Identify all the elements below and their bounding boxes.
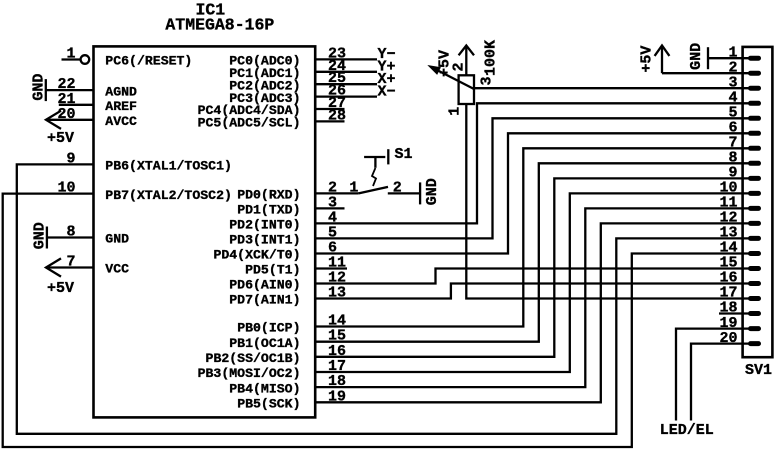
wire PB4 to SV1 pin 11 (315, 208, 749, 387)
svg-text:GND: GND (105, 232, 129, 247)
connector SV1 pin 18 stub (719, 312, 749, 314)
svg-text:GND: GND (31, 222, 48, 249)
svg-text:SV1: SV1 (745, 362, 772, 379)
connector SV1 pin 18 pad and number (719, 300, 758, 317)
svg-text:GND: GND (424, 178, 441, 205)
svg-text:PD4(XCK/T0): PD4(XCK/T0) (213, 248, 300, 263)
connector SV1 pin 10 pad and number (719, 180, 758, 197)
ground symbol at AGND (30, 74, 47, 102)
wire stub PD1 (pin 3) (315, 207, 344, 209)
wire PD0 to switch S1 (315, 192, 358, 194)
IC1 pin 11 PD5(T1) (245, 255, 346, 278)
svg-text:PB7(XTAL2/TOSC2): PB7(XTAL2/TOSC2) (105, 188, 232, 203)
IC U1 IC1 body (94, 46, 316, 417)
IC1 pin 25 PC2(ADC2) (229, 70, 377, 93)
wire stub PD5 (pin 11) (315, 267, 347, 269)
svg-text:PB4(MISO): PB4(MISO) (229, 381, 300, 396)
IC1 pin 24 PC1(ADC1) (229, 58, 377, 81)
wire PB6 (pin 9) long route to SV1 pin 13 (17, 164, 749, 433)
wire PD4 to SV1 pin 6 (315, 133, 749, 253)
IC1 pin 23 PC0(ADC0) (229, 45, 377, 68)
svg-text:PD0(RXD): PD0(RXD) (237, 188, 300, 203)
connector SV1 pin 16 pad and number (719, 270, 758, 287)
svg-text:X−: X− (378, 83, 396, 100)
wire PB3 to SV1 pin 10 (315, 193, 749, 372)
svg-text:PB6(XTAL1/TOSC1): PB6(XTAL1/TOSC1) (105, 159, 232, 174)
svg-text:PD5(T1): PD5(T1) (245, 263, 300, 278)
IC1 pin 4 PD2(INT0) (229, 209, 337, 232)
svg-text:PB5(SCK): PB5(SCK) (237, 397, 300, 412)
wire potentiometer pin 1 to SV1 pin 17 (466, 104, 749, 299)
IC1 pin 10 PB7(XTAL2/TOSC2) (57, 180, 231, 203)
IC1 pin 22 AGND (46, 76, 137, 99)
svg-text:GND: GND (688, 43, 705, 70)
svg-text:28: 28 (328, 107, 346, 124)
switch S1 actuator button (364, 157, 385, 186)
svg-text:PB1(OC1A): PB1(OC1A) (229, 336, 300, 351)
svg-text:AGND: AGND (105, 84, 137, 99)
ground symbol at S1 (420, 178, 441, 205)
connector SV1 pin 19 pad and number (719, 315, 758, 332)
connector SV1 pin 3 pad and number (728, 74, 758, 91)
svg-text:PB2(SS/OC1B): PB2(SS/OC1B) (206, 351, 301, 366)
svg-text:+5V: +5V (638, 46, 655, 73)
svg-text:VCC: VCC (105, 262, 129, 277)
+5V supply arrow at VCC (46, 258, 74, 297)
svg-text:AREF: AREF (105, 99, 137, 114)
IC1 pin 16 PB2(SS/OC1B) (206, 343, 346, 366)
ground symbol at pin 8 (31, 222, 48, 249)
connector SV1 pin 17 pad and number (719, 285, 758, 302)
svg-text:AVCC: AVCC (105, 114, 137, 129)
wire SV1 pin 19 to LED/EL (676, 329, 749, 421)
svg-text:7: 7 (66, 254, 75, 271)
+5V supply arrow at SV1 pin 2 (638, 46, 669, 74)
connector SV1 pin 9 pad and number (728, 165, 758, 182)
svg-text:3: 3 (478, 76, 495, 85)
wire +5V to SV1 pin 2 (662, 72, 749, 74)
svg-text:PD6(AIN0): PD6(AIN0) (229, 278, 300, 293)
IC1 pin 19 PB5(SCK) (237, 388, 346, 411)
IC1 pin 14 PB0(ICP) (237, 313, 346, 336)
connector SV1 pin 11 pad and number (719, 195, 758, 212)
connector SV1 pin 8 pad and number (728, 150, 758, 167)
svg-text:S1: S1 (395, 146, 413, 163)
svg-text:PD2(INT0): PD2(INT0) (229, 218, 300, 233)
connector SV1 pin 2 pad and number (728, 59, 758, 76)
IC1 pin 26 PC3(ADC3) (229, 83, 377, 106)
svg-text:+5V: +5V (47, 280, 74, 297)
svg-text:PD3(INT1): PD3(INT1) (229, 233, 300, 248)
wire PB2 to SV1 pin 9 (315, 178, 749, 356)
wire PD2 to SV1 pin 4 (315, 103, 749, 223)
connector SV1 pin 6 pad and number (728, 120, 758, 137)
svg-text:LED/EL: LED/EL (660, 422, 714, 439)
IC1 pin 9 PB6(XTAL1/TOSC1) (66, 150, 231, 173)
svg-text:PD1(TXD): PD1(TXD) (237, 203, 300, 218)
wire PB0 to SV1 pin 7 (315, 148, 749, 326)
svg-text:8: 8 (66, 224, 75, 241)
svg-text:GND: GND (30, 74, 47, 101)
IC1 pin 17 PB3(MOSI/OC2) (198, 358, 346, 381)
svg-text:+5V: +5V (47, 130, 74, 147)
IC1 pin 2 PD0(RXD) (237, 179, 337, 202)
connector SV1 pin 7 pad and number (728, 135, 758, 152)
IC1 pin 7 VCC (46, 254, 129, 277)
IC1 pin 28 PC5(ADC5/SCL) (198, 107, 346, 130)
IC1 pin 15 PB1(OC1A) (229, 328, 346, 351)
connector SV1 pin 4 pad and number (728, 90, 758, 107)
connector SV1 pin 14 pad and number (719, 240, 758, 257)
connector SV1 pin 20 pad and number (719, 330, 758, 347)
connector SV1 pin 15 pad and number (719, 255, 758, 272)
svg-text:PC6(/RESET): PC6(/RESET) (105, 54, 192, 69)
+5V supply arrow above potentiometer (459, 46, 474, 76)
wire PB1 to SV1 pin 8 (315, 163, 749, 341)
switch S1 fixed contact bar (387, 149, 389, 164)
IC1 pin 6 PD4(XCK/T0) (213, 240, 337, 263)
svg-text:2: 2 (450, 62, 467, 71)
svg-text:PC5(ADC5/SCL): PC5(ADC5/SCL) (198, 116, 301, 131)
potentiometer 100K body (459, 75, 474, 104)
svg-text:100K: 100K (482, 40, 499, 76)
switch S1 armature (359, 187, 388, 194)
wire PD7 to SV1 pin 16 (jog) (315, 284, 749, 299)
wire PB7 (pin 10) long route to SV1 pin 14 (3, 194, 749, 447)
svg-text:ATMEGA8-16P: ATMEGA8-16P (165, 15, 274, 34)
IC1 pin 3 PD1(TXD) (237, 194, 337, 217)
IC1 pin 1 PC6(/RESET) with inversion circle (62, 45, 193, 68)
IC1 pin 20 AVCC (46, 106, 137, 129)
wire PB5 to SV1 pin 12 (315, 223, 749, 402)
IC1 pin 18 PB4(MISO) (229, 373, 346, 396)
connector SV1 pin 1 pad and number (728, 44, 758, 61)
potentiometer wiper arrow (429, 66, 474, 89)
IC1 pin 13 PD7(AIN1) (229, 285, 346, 308)
svg-text:1: 1 (349, 179, 358, 196)
connector SV1 pin 5 pad and number (728, 105, 758, 122)
svg-text:PB0(ICP): PB0(ICP) (237, 321, 300, 336)
svg-text:PD7(AIN1): PD7(AIN1) (229, 293, 300, 308)
IC1 pin 27 PC4(ADC4/SDA) (198, 95, 346, 118)
wire SV1 pin 20 to LED/EL (691, 344, 749, 421)
+5V supply arrow at AVCC (46, 111, 74, 147)
wire ground to SV1 pin 1 (708, 57, 749, 59)
connector SV1 pin 12 pad and number (719, 210, 758, 227)
connector SV1 body (743, 47, 773, 357)
svg-text:1: 1 (447, 107, 464, 116)
IC1 pin 12 PD6(AIN0) (229, 270, 346, 293)
wire PD6 to SV1 pin 15 (jog) (315, 269, 749, 284)
IC1 pin 8 GND (47, 224, 129, 247)
ground symbol at SV1 pin 1 (688, 43, 708, 70)
wire potentiometer wiper to SV1 pin 3 (474, 87, 749, 89)
svg-text:1: 1 (66, 45, 75, 62)
connector SV1 pin 13 pad and number (719, 225, 758, 242)
svg-text:20: 20 (57, 106, 75, 123)
wire PD3 to SV1 pin 5 (315, 118, 749, 238)
wire S1 to ground (388, 192, 420, 194)
svg-text:PB3(MOSI/OC2): PB3(MOSI/OC2) (198, 366, 301, 381)
IC1 pin 5 PD3(INT1) (229, 224, 337, 247)
IC1 pin 21 AREF (stub) (57, 91, 137, 114)
